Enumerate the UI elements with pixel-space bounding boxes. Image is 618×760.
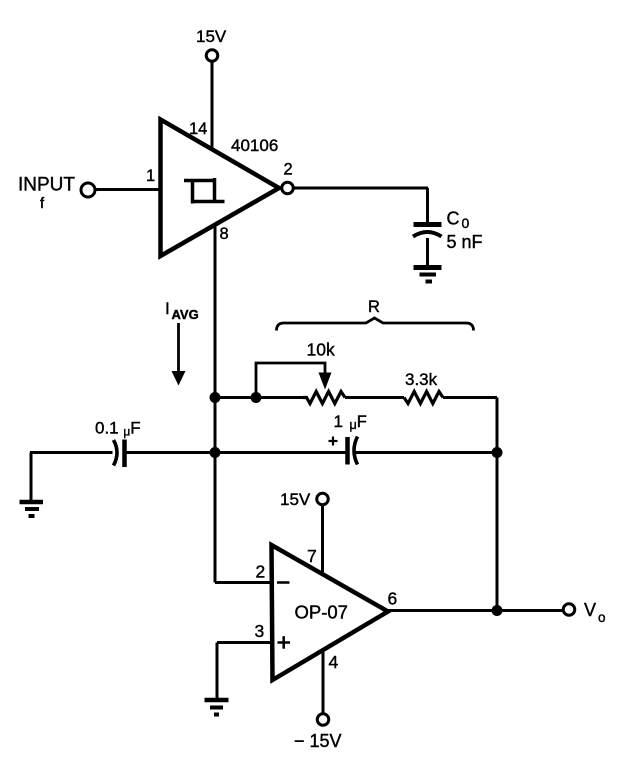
capacitor C0 top plate — [414, 222, 442, 227]
svg-text:INPUT: INPUT — [18, 175, 75, 196]
wire down to C0 — [426, 188, 429, 223]
schmitt hysteresis symbol — [184, 178, 225, 204]
svg-text:14: 14 — [189, 120, 207, 138]
node junction (output / right rail) — [492, 605, 503, 616]
svg-text:3: 3 — [255, 621, 265, 641]
svg-text:3.3k: 3.3k — [405, 370, 438, 389]
inverter U1 40106 triangle — [161, 120, 280, 257]
svg-text:1: 1 — [146, 167, 155, 185]
wire pot to 3.3k — [345, 396, 404, 399]
ground (op-amp non-inverting) — [205, 700, 229, 715]
resistor 3.3k zigzag — [404, 392, 443, 404]
svg-text:15V: 15V — [280, 490, 311, 509]
inverter output bubble — [282, 182, 294, 194]
svg-text:− 15V: − 15V — [294, 731, 342, 751]
capacitor 0.1uF straight plate — [122, 440, 127, 468]
wire 1uF to right rail — [355, 451, 497, 454]
potentiometer 10k zigzag — [303, 392, 345, 404]
wire left to 0.1uF — [30, 451, 113, 454]
wire input to pin 1 — [96, 188, 162, 191]
wire C0 to ground — [426, 238, 429, 266]
svg-text:8: 8 — [220, 225, 229, 243]
wire pin 8 down to node — [214, 223, 217, 583]
wire pin 2 to C0 — [295, 187, 429, 190]
node junction (right rail / 1uF) — [492, 447, 503, 458]
wire pin3 to ground — [216, 643, 219, 699]
wire pin 3 (op-amp) — [217, 641, 273, 644]
wire node to pot — [215, 396, 304, 399]
output terminal Vo circle — [563, 604, 575, 616]
output wire pin 6 — [388, 609, 563, 612]
current arrow I AVG — [177, 323, 180, 372]
svg-text:40106: 40106 — [231, 136, 278, 155]
wire left cap to ground — [30, 453, 33, 501]
power terminal -15V circle — [317, 714, 329, 726]
svg-text:OP-07: OP-07 — [295, 602, 348, 623]
svg-text:15V: 15V — [196, 27, 227, 46]
wire pin 2 (op-amp) — [215, 581, 273, 584]
plus sign (1uF polarity) — [329, 437, 338, 446]
node junction (0.1uF / vertical) — [210, 447, 221, 458]
svg-text:2: 2 — [284, 161, 293, 179]
capacitor C0 bottom plate (curved) — [413, 232, 442, 237]
svg-text:0.1 μF: 0.1 μF — [95, 419, 141, 439]
input terminal circle — [81, 183, 95, 197]
power terminal 15V (top) circle — [206, 50, 218, 62]
power terminal 15V (op-amp) circle — [317, 493, 329, 505]
op-amp U2 OP-07 triangle — [272, 545, 389, 680]
capacitor 1uF straight plate — [345, 437, 350, 465]
potentiometer wiper wire — [256, 363, 325, 396]
svg-text:2: 2 — [256, 562, 266, 582]
brace over R — [277, 318, 474, 331]
potentiometer wiper arrowhead — [319, 373, 332, 390]
svg-text:R: R — [368, 298, 380, 316]
wire 0.1uF to 1uF — [126, 451, 346, 454]
svg-text:7: 7 — [307, 546, 317, 566]
wire 15V to pin 14 — [211, 62, 214, 152]
wire 15V to pin 7 — [321, 506, 324, 579]
wire 3.3k to right rail — [443, 396, 497, 399]
svg-text:AVG: AVG — [172, 307, 199, 322]
capacitor 1uF curved plate — [354, 437, 358, 465]
plus sign (non-inverting input) — [278, 636, 291, 649]
node junction (pin8 / R) — [210, 392, 221, 403]
capacitor 0.1uF curved plate — [114, 440, 118, 466]
ground (C0) — [414, 268, 442, 282]
svg-text:I: I — [165, 299, 170, 318]
minus sign (inverting input) — [277, 581, 290, 584]
node junction (wiper tap) — [251, 392, 262, 403]
right rail wire down — [496, 398, 499, 611]
svg-text:4: 4 — [329, 652, 339, 672]
wire pin 4 to -15V — [322, 645, 325, 713]
svg-text:10k: 10k — [307, 340, 335, 360]
svg-text:5 nF: 5 nF — [447, 232, 483, 252]
ground (0.1uF) — [20, 502, 44, 516]
svg-text:6: 6 — [388, 589, 398, 609]
